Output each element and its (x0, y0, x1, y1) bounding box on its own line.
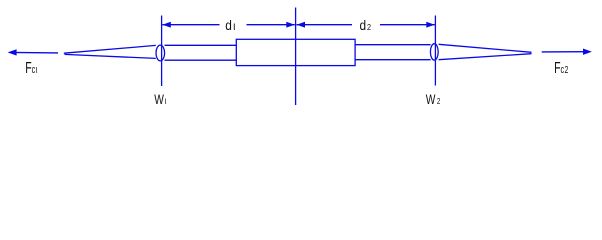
svg-text:W2: W2 (426, 91, 441, 107)
shaft left taper bottom line (65, 54, 156, 58)
extension line at W2 (434, 16, 436, 86)
centerline (295, 8, 297, 106)
dimension d2 line right segment with arrowhead (380, 22, 435, 28)
dimension d2 line left segment with arrowhead (297, 22, 353, 28)
shaft narrow section right of center (top and bottom lines) (355, 45, 431, 60)
disc W1 (ellipse) (156, 45, 165, 61)
svg-text:d2: d2 (360, 17, 371, 33)
disc W2 (ellipse) (430, 44, 438, 60)
force arrow Fc2 (542, 49, 592, 55)
force arrow Fc1 (8, 49, 58, 55)
label W2 (426, 91, 441, 107)
shaft narrow section left of center (top and bottom lines) (165, 45, 237, 60)
dimension d1 line right segment with arrowhead (247, 22, 295, 28)
shaft left taper top line (64, 45, 156, 53)
label Fc2 (554, 59, 568, 77)
shaft center rectangle (236, 39, 355, 65)
label d2 (360, 17, 371, 33)
svg-text:Wι: Wι (154, 91, 166, 107)
label Fc1 (25, 59, 37, 77)
extension line at W1 (161, 16, 163, 87)
dimension d1 line left segment with arrowhead (162, 22, 219, 28)
svg-text:dι: dι (225, 17, 236, 33)
label d1 (225, 17, 236, 33)
svg-text:Fcι: Fcι (25, 59, 37, 77)
shaft right taper top line (439, 44, 532, 52)
svg-text:Fc2: Fc2 (554, 59, 568, 77)
label W1 (154, 91, 166, 107)
shaft right taper bottom line (439, 54, 532, 60)
